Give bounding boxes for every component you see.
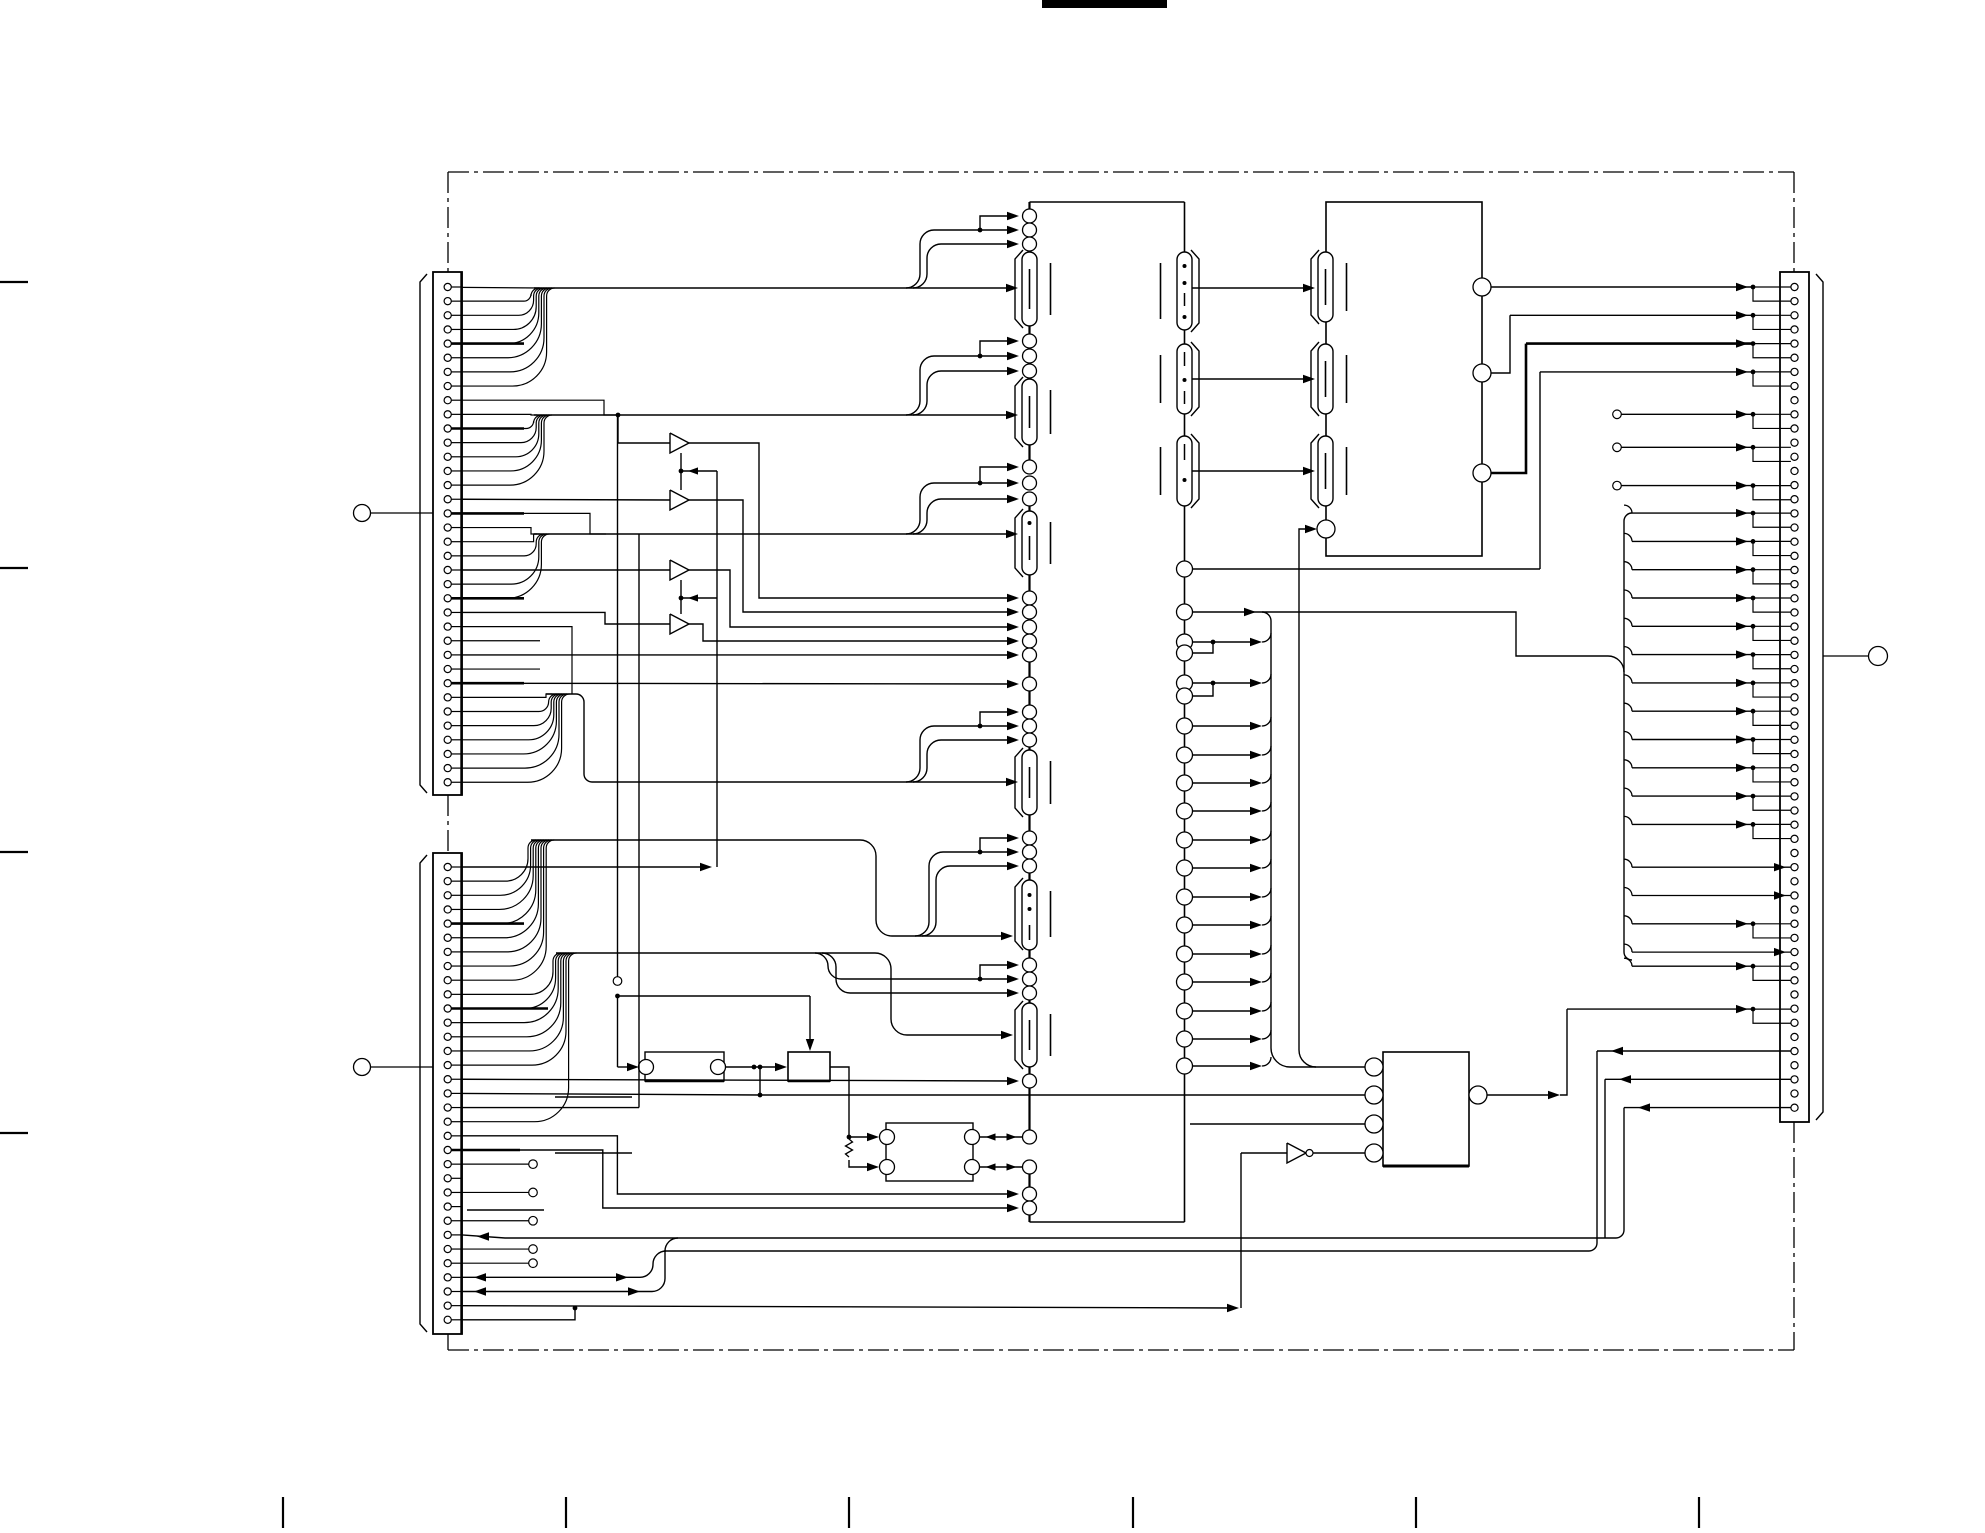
feedback net Q1-Q2 junction xyxy=(679,453,717,490)
wire bundle from CN1 pins 2-8 to bus A xyxy=(462,287,555,386)
net IC2 bubble 529 to IC3 pin 1067 xyxy=(1290,525,1365,1067)
bus 1251 riser to CN3 pin 1051 xyxy=(1589,1047,1791,1251)
wire CN1 to IC1 pin 655 xyxy=(462,651,1019,659)
connector CN2 reference bubble xyxy=(354,1059,434,1076)
NC terminal junction wiring to trap and delay line xyxy=(615,994,814,1072)
bus E into IC1 pins 838-936 xyxy=(531,834,1019,940)
rail branch pair at 923 xyxy=(1624,916,1791,938)
net vertical riser to inverter U1 xyxy=(1241,1153,1287,1308)
delay line DL1 xyxy=(639,1052,726,1081)
connector CN1 (upper left) body xyxy=(420,272,462,795)
power rail feed from IC1 pin 612 xyxy=(1193,608,1625,672)
wire U1 output to IC3 pin 1153 xyxy=(1313,1152,1365,1154)
IC1 main LSI outline xyxy=(1030,202,1185,1222)
no-connect terminals feeding CN3 pins xyxy=(1613,410,1791,500)
wire CN1 to IC1 pin 684 xyxy=(462,680,1019,688)
page registration tick marks left edge xyxy=(0,282,28,1133)
ferrite capsule FB4 xyxy=(1015,748,1051,817)
wire bundle from CN1 pins 17-23 to bus C xyxy=(462,513,606,598)
connector CN1 reference bubble xyxy=(354,505,434,522)
wire bus B tap down to Q1 input xyxy=(616,413,670,443)
IC1 pin bubbles group G xyxy=(1023,1074,1037,1215)
wire CN2 pin 30 riser to bus 1251 xyxy=(462,1251,666,1282)
ferrite capsule FB2 xyxy=(1015,377,1051,447)
wire CN2 pin 21 jog to IC1 pin 1208 xyxy=(462,1150,1019,1212)
wire DL1 output to trap T1 xyxy=(726,1063,788,1071)
bus D into IC1 pins 712-782 xyxy=(592,708,1019,786)
wire Q2 output to IC1 pin 612 xyxy=(689,500,1019,616)
shield marks near CN2 xyxy=(467,1097,632,1210)
buffer amplifier Q2 xyxy=(670,490,689,510)
bus 1238 riser to CN3 pin 1108 xyxy=(1616,1103,1791,1238)
IC1 pin bubbles group F xyxy=(1023,958,1037,1000)
connector CN1 pins xyxy=(444,283,462,785)
wire bundle from CN1 pins 30-36 down to bus D xyxy=(462,627,592,783)
wire Q1 output to IC1 pin 598 xyxy=(689,443,1019,602)
resistor R1 xyxy=(846,1139,853,1157)
wire CN2 pin 31 riser to bus 1238 xyxy=(462,1238,678,1296)
trap coil T1 xyxy=(788,1052,830,1081)
IC1 pin bubbles group C xyxy=(1023,460,1037,506)
wire CN1 to buffer Q3 input xyxy=(462,569,670,571)
bus A into IC1 pins 216-288 xyxy=(534,212,1019,292)
bus B into IC1 pins 341-415 xyxy=(534,337,1019,419)
wire bundle from CN2 pins 10-19 up to bus F xyxy=(462,953,577,1122)
wire Q3 output to IC1 pin 627 xyxy=(689,570,1019,631)
IC1 pin bubbles group B xyxy=(1023,334,1037,378)
IC1 pin bubbles group A xyxy=(1023,209,1037,251)
bus F into IC1 pins 965-1035 xyxy=(556,953,1019,1039)
connector CN2 (lower left) body xyxy=(420,853,462,1334)
feedback net Q3-Q4 junction xyxy=(679,580,717,614)
ferrite capsule FB3 xyxy=(1015,509,1051,577)
wire IC3 output to CN3 pins 1009-1024 xyxy=(1488,1005,1791,1099)
wire Q4 output to IC1 pin 641 xyxy=(689,624,1019,645)
IC1 pin bubbles group E xyxy=(1023,831,1037,873)
crystal X1 to IC1 links xyxy=(980,1133,1023,1170)
inverter U1 xyxy=(1287,1143,1313,1163)
wire CN1 jog to buffer Q4 input xyxy=(462,612,670,624)
ferrite capsule FB10 on IC2 left edge xyxy=(1311,250,1347,324)
board boundary dash-dot frame xyxy=(448,172,1794,1350)
wire FB8 output to FB11 xyxy=(1192,375,1315,383)
connector CN3 (right) body xyxy=(1780,272,1823,1122)
wire IC2 out 373 to CN3 pins 3-4 xyxy=(1491,311,1791,373)
wire into IC3 pin 1124 xyxy=(1190,1123,1365,1125)
wire IC1 pin 569 to CN3 pins 7-8 xyxy=(1193,368,1791,569)
crystal X1 xyxy=(880,1123,980,1181)
ferrite capsule FB12 on IC2 left edge xyxy=(1311,434,1347,508)
ferrite capsule FB7 on IC1 right edge xyxy=(1161,250,1200,332)
bus wire y1238 from CN2 pin 27 to right side xyxy=(462,1232,1616,1240)
IC1 right edge pin bubbles xyxy=(1177,561,1193,1074)
bus wire y1251 to right side xyxy=(664,1250,1589,1252)
connector CN3 reference bubble xyxy=(1823,647,1888,666)
wire bundle from CN1 pins 9-15 to bus B xyxy=(462,400,620,485)
wire FB7 output to FB10 xyxy=(1192,284,1315,292)
junction hooks on IC1 right pin pairs xyxy=(1193,640,1216,696)
wire FB9 output to FB12 xyxy=(1192,467,1315,475)
page registration tick marks bottom edge xyxy=(283,1497,1699,1528)
wire CN2 pin 20 jog to IC1 pin 1194 xyxy=(462,1136,1019,1198)
vertical net x717 from feedback to CN2 pin 1 xyxy=(462,471,717,871)
buffer amplifier Q3 xyxy=(670,560,689,580)
wire CN3 pin 1080 down to bus 1238 xyxy=(1605,1075,1791,1238)
IC1 left pin column spine xyxy=(1028,202,1030,1215)
wire CN2 to IC3 pin 1095 xyxy=(462,1093,1365,1095)
ferrite capsule FB1 xyxy=(1015,250,1051,328)
ferrite capsule FB9 on IC1 right edge xyxy=(1161,434,1200,508)
rail single branches to CN3 xyxy=(1624,859,1791,956)
title underline bar xyxy=(1042,0,1167,8)
IC1 right pins collector rail xyxy=(1193,621,1291,1070)
rail end branch to CN3 pins at 966 xyxy=(1624,958,1791,980)
wire stub CN1 pin 26 xyxy=(462,640,540,642)
IC1 pin bubbles group D xyxy=(1023,591,1037,747)
ferrite capsule FB6 xyxy=(1015,1001,1051,1069)
ferrite capsule FB5 xyxy=(1015,878,1051,950)
no-connect stubs on CN2 pins xyxy=(462,1160,537,1268)
connector CN3 pins xyxy=(1791,283,1798,1111)
wire stub CN1 pin 28 xyxy=(462,668,540,670)
wire IC2 out 287 to CN3 pins 1-2 xyxy=(1491,283,1791,301)
thick stub wires on CN2 pins xyxy=(451,924,548,1150)
wire bundle from CN2 pins 2-9 up to bus E xyxy=(462,840,554,980)
connector CN2 pins xyxy=(444,863,462,1323)
wire CN2 pins 32-33 to inverter U1 net xyxy=(462,1304,1239,1320)
IC2 output bubbles xyxy=(1317,278,1491,538)
bus C into IC1 pins 467-534 xyxy=(534,463,1019,538)
power distribution rail xyxy=(1624,513,1632,960)
net trap T1 to crystal X1 xyxy=(830,1067,879,1171)
wire CN2 to IC1 pin 1081 xyxy=(462,1077,1019,1085)
junction T1 down to IC3 net xyxy=(758,1067,763,1097)
IC3 lower right block outline xyxy=(1383,1052,1469,1166)
wire CN1 to buffer Q2 input xyxy=(462,498,670,501)
rail branches to CN3 pin pairs xyxy=(1624,505,1791,838)
ferrite capsule FB11 on IC2 left edge xyxy=(1311,342,1347,416)
IC3 pin bubbles xyxy=(1365,1058,1487,1162)
thick wire IC2 out 473 to CN3 pins 5-6 xyxy=(1491,339,1791,473)
vertical net x617 to NC terminal xyxy=(613,415,622,985)
thick stub wires on CN1 pins xyxy=(451,344,524,684)
ferrite capsule FB8 on IC1 right edge xyxy=(1161,342,1200,416)
buffer amplifier Q4 xyxy=(670,614,689,634)
buffer amplifier Q1 xyxy=(670,433,689,453)
IC2 upper right block outline xyxy=(1326,202,1482,556)
net CN2 pin 18 riser x639 to bus C xyxy=(462,534,639,1108)
